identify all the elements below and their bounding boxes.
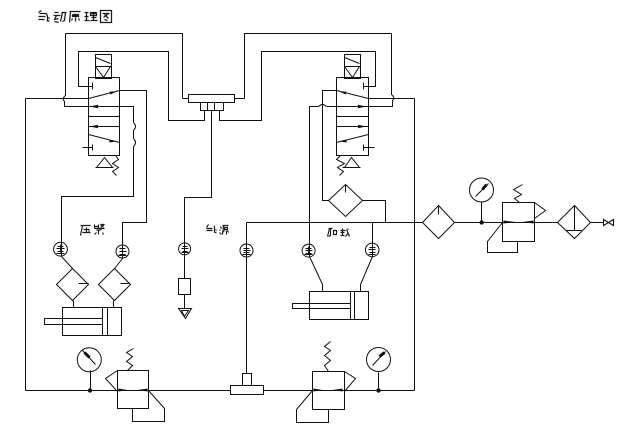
gauge G1 needle bbox=[83, 351, 96, 365]
wire plug to exhaust bbox=[184, 295, 186, 309]
wire load line through regulator bbox=[503, 222, 535, 224]
R1 spring bbox=[127, 349, 134, 371]
junction dot G1 bbox=[88, 388, 92, 392]
label 加载 bbox=[328, 229, 350, 237]
wire load line horizontal bbox=[247, 222, 604, 224]
wire bus through R2 bbox=[313, 390, 345, 392]
R3 arrows bbox=[504, 221, 516, 224]
wire hop bump right bbox=[319, 105, 327, 107]
gauge G3 needle bbox=[476, 184, 489, 197]
wire pilot left vertical with hop bbox=[63, 34, 88, 107]
coupling circle K2 bbox=[116, 245, 129, 258]
R1 pilot triangle bbox=[106, 371, 118, 392]
wire right valve port A left bbox=[323, 91, 337, 201]
D2 inner tick bbox=[121, 283, 130, 285]
gauge G3 stem bbox=[481, 202, 483, 223]
wire outer-left loop top bbox=[66, 34, 183, 99]
wire outer-right loop top bbox=[245, 34, 392, 99]
wire K1 to diamond D1 bbox=[62, 257, 73, 269]
lubricator diamond bbox=[558, 206, 591, 239]
wire manifold center port down bbox=[185, 111, 212, 279]
regulator R3 box bbox=[503, 203, 535, 242]
lubricator inner bbox=[567, 206, 582, 231]
gauge G1 stem bbox=[90, 371, 92, 391]
wire right bus vertical bbox=[414, 99, 416, 391]
wire inner-right loop bbox=[220, 52, 376, 121]
wire pilot right horizontal bbox=[369, 98, 415, 100]
valve arrow horiz1 bbox=[89, 106, 120, 108]
R2 arrows bbox=[314, 389, 323, 392]
R1 arrows bbox=[119, 389, 128, 392]
R2 pilot triangle bbox=[345, 372, 356, 392]
wire diamond D3 right to load line bbox=[363, 201, 386, 223]
wire hop bump 2 bbox=[134, 139, 136, 147]
valve arrow horiz1 right bbox=[337, 106, 369, 108]
speed valve diamond D1 bbox=[57, 269, 89, 301]
speed valve diamond D2 bbox=[99, 269, 131, 301]
valve arrow diag chamber1 right bbox=[337, 91, 369, 99]
port tick bottom-left bbox=[83, 145, 93, 151]
wire port B right bumpy bbox=[62, 107, 134, 257]
regulator R2 box bbox=[313, 372, 345, 410]
char in K6 bbox=[369, 246, 376, 255]
gauge G2 stem bbox=[378, 373, 380, 391]
wire pilot left horizontal bbox=[26, 98, 89, 100]
manifold port block bbox=[201, 103, 224, 111]
solenoid coil box right valve bbox=[345, 55, 361, 79]
exhaust silencer bbox=[179, 309, 192, 319]
exhaust triangle right valve bbox=[343, 158, 361, 168]
D1 inner tick bbox=[79, 283, 89, 285]
port tick bottom-right bbox=[364, 145, 375, 151]
wire left bus vertical bbox=[25, 99, 27, 391]
char 原 bbox=[70, 12, 81, 23]
压紧 cylinder body bbox=[63, 308, 122, 336]
manifold body bbox=[189, 95, 235, 103]
压紧 piston bbox=[103, 308, 108, 336]
FRL filter diamond bbox=[423, 206, 455, 239]
shutoff valve bowtie bbox=[604, 220, 614, 226]
char 气 bbox=[39, 11, 50, 22]
T-block base bbox=[231, 386, 264, 395]
加载 rod bbox=[293, 304, 351, 309]
char in K1 bbox=[57, 245, 65, 254]
filter D3 inner tick bbox=[345, 185, 347, 193]
coupling circle K1 bbox=[54, 242, 68, 256]
wire pilot right vertical with hop bbox=[369, 34, 394, 107]
valve body right bbox=[337, 78, 369, 156]
gauge G2 bbox=[367, 348, 391, 372]
solenoid coil box left valve bbox=[96, 55, 112, 79]
wire K2 to diamond D2 bbox=[115, 259, 123, 269]
manifold port divider 1 bbox=[207, 103, 209, 111]
R2 spring bbox=[325, 342, 331, 372]
coupling circle K6 bbox=[365, 243, 379, 257]
gauge G2 needle bbox=[373, 352, 386, 366]
R3 bypass loop bbox=[488, 223, 518, 253]
加载 cylinder body bbox=[310, 292, 369, 320]
wire D1 to cylinder bbox=[73, 301, 75, 308]
valve body left bbox=[89, 78, 120, 156]
wire K5 to cylinder bbox=[310, 257, 323, 292]
return spring right valve bbox=[337, 156, 345, 176]
R3 pilot triangle bbox=[535, 203, 546, 219]
R3 spring bbox=[514, 185, 523, 203]
char in K4 bbox=[243, 247, 251, 255]
filter diamond D3 bbox=[329, 185, 363, 217]
valve divider right bbox=[337, 116, 369, 118]
wire right valve port B left with hop bbox=[310, 107, 337, 257]
压紧 rod bbox=[45, 319, 103, 325]
wire K6 to cylinder bbox=[361, 257, 373, 292]
title 气动原理图 bbox=[39, 11, 112, 23]
valve divider left bbox=[89, 116, 120, 118]
gauge G1 bbox=[77, 348, 101, 372]
port tick top-right bbox=[364, 83, 375, 90]
junction dot gauge G3 bbox=[479, 220, 483, 224]
wire D2 to cylinder bbox=[113, 301, 115, 308]
exhaust triangle left valve bbox=[96, 158, 114, 168]
junction dot G2 bbox=[376, 388, 380, 392]
wire inner-left loop bbox=[79, 52, 205, 121]
valve arrow horiz2 right bbox=[337, 126, 369, 128]
wire bus through R1 bbox=[118, 390, 149, 392]
加载 piston bbox=[351, 292, 355, 320]
char 理 bbox=[85, 13, 98, 21]
manifold port divider 2 bbox=[214, 103, 216, 111]
coupling circle K4 bbox=[240, 244, 253, 257]
wire port A right (to x147) bbox=[120, 91, 147, 259]
valve arrow diag chamber2 bbox=[89, 135, 120, 143]
coupling circle K3 bbox=[179, 243, 191, 255]
char in K2 bbox=[119, 247, 127, 256]
valve arrow diag chamber1 bbox=[89, 91, 120, 99]
return spring left valve bbox=[113, 156, 119, 176]
R1 bypass loop bbox=[133, 391, 165, 422]
char in K5 bbox=[305, 247, 313, 255]
label 气源 bbox=[207, 225, 229, 235]
port tick top-left bbox=[83, 83, 93, 90]
regulator R1 box bbox=[118, 371, 149, 409]
T-block top square bbox=[243, 374, 252, 386]
wire stub manifold right bbox=[235, 98, 245, 100]
FRL filter inner tick bbox=[438, 207, 440, 215]
R2 bypass loop bbox=[297, 391, 329, 423]
plug square bbox=[179, 279, 191, 295]
valve arrow diag chamber2 right bbox=[337, 135, 369, 143]
char 图 bbox=[101, 11, 112, 23]
char 动 bbox=[54, 13, 67, 23]
char in K3 bbox=[182, 245, 189, 253]
gauge G3 bbox=[470, 178, 494, 202]
valve arrow horiz2 bbox=[89, 126, 120, 128]
coupling circle K5 bbox=[302, 244, 315, 257]
wire bottom bus bbox=[26, 390, 415, 392]
wire hop bump 1 bbox=[134, 123, 136, 131]
label 压紧 bbox=[81, 225, 105, 236]
wire stub manifold left bbox=[183, 98, 189, 100]
wire K6 stub up bbox=[372, 223, 374, 257]
wire K4 vertical through coupling to T-block bbox=[246, 223, 248, 374]
